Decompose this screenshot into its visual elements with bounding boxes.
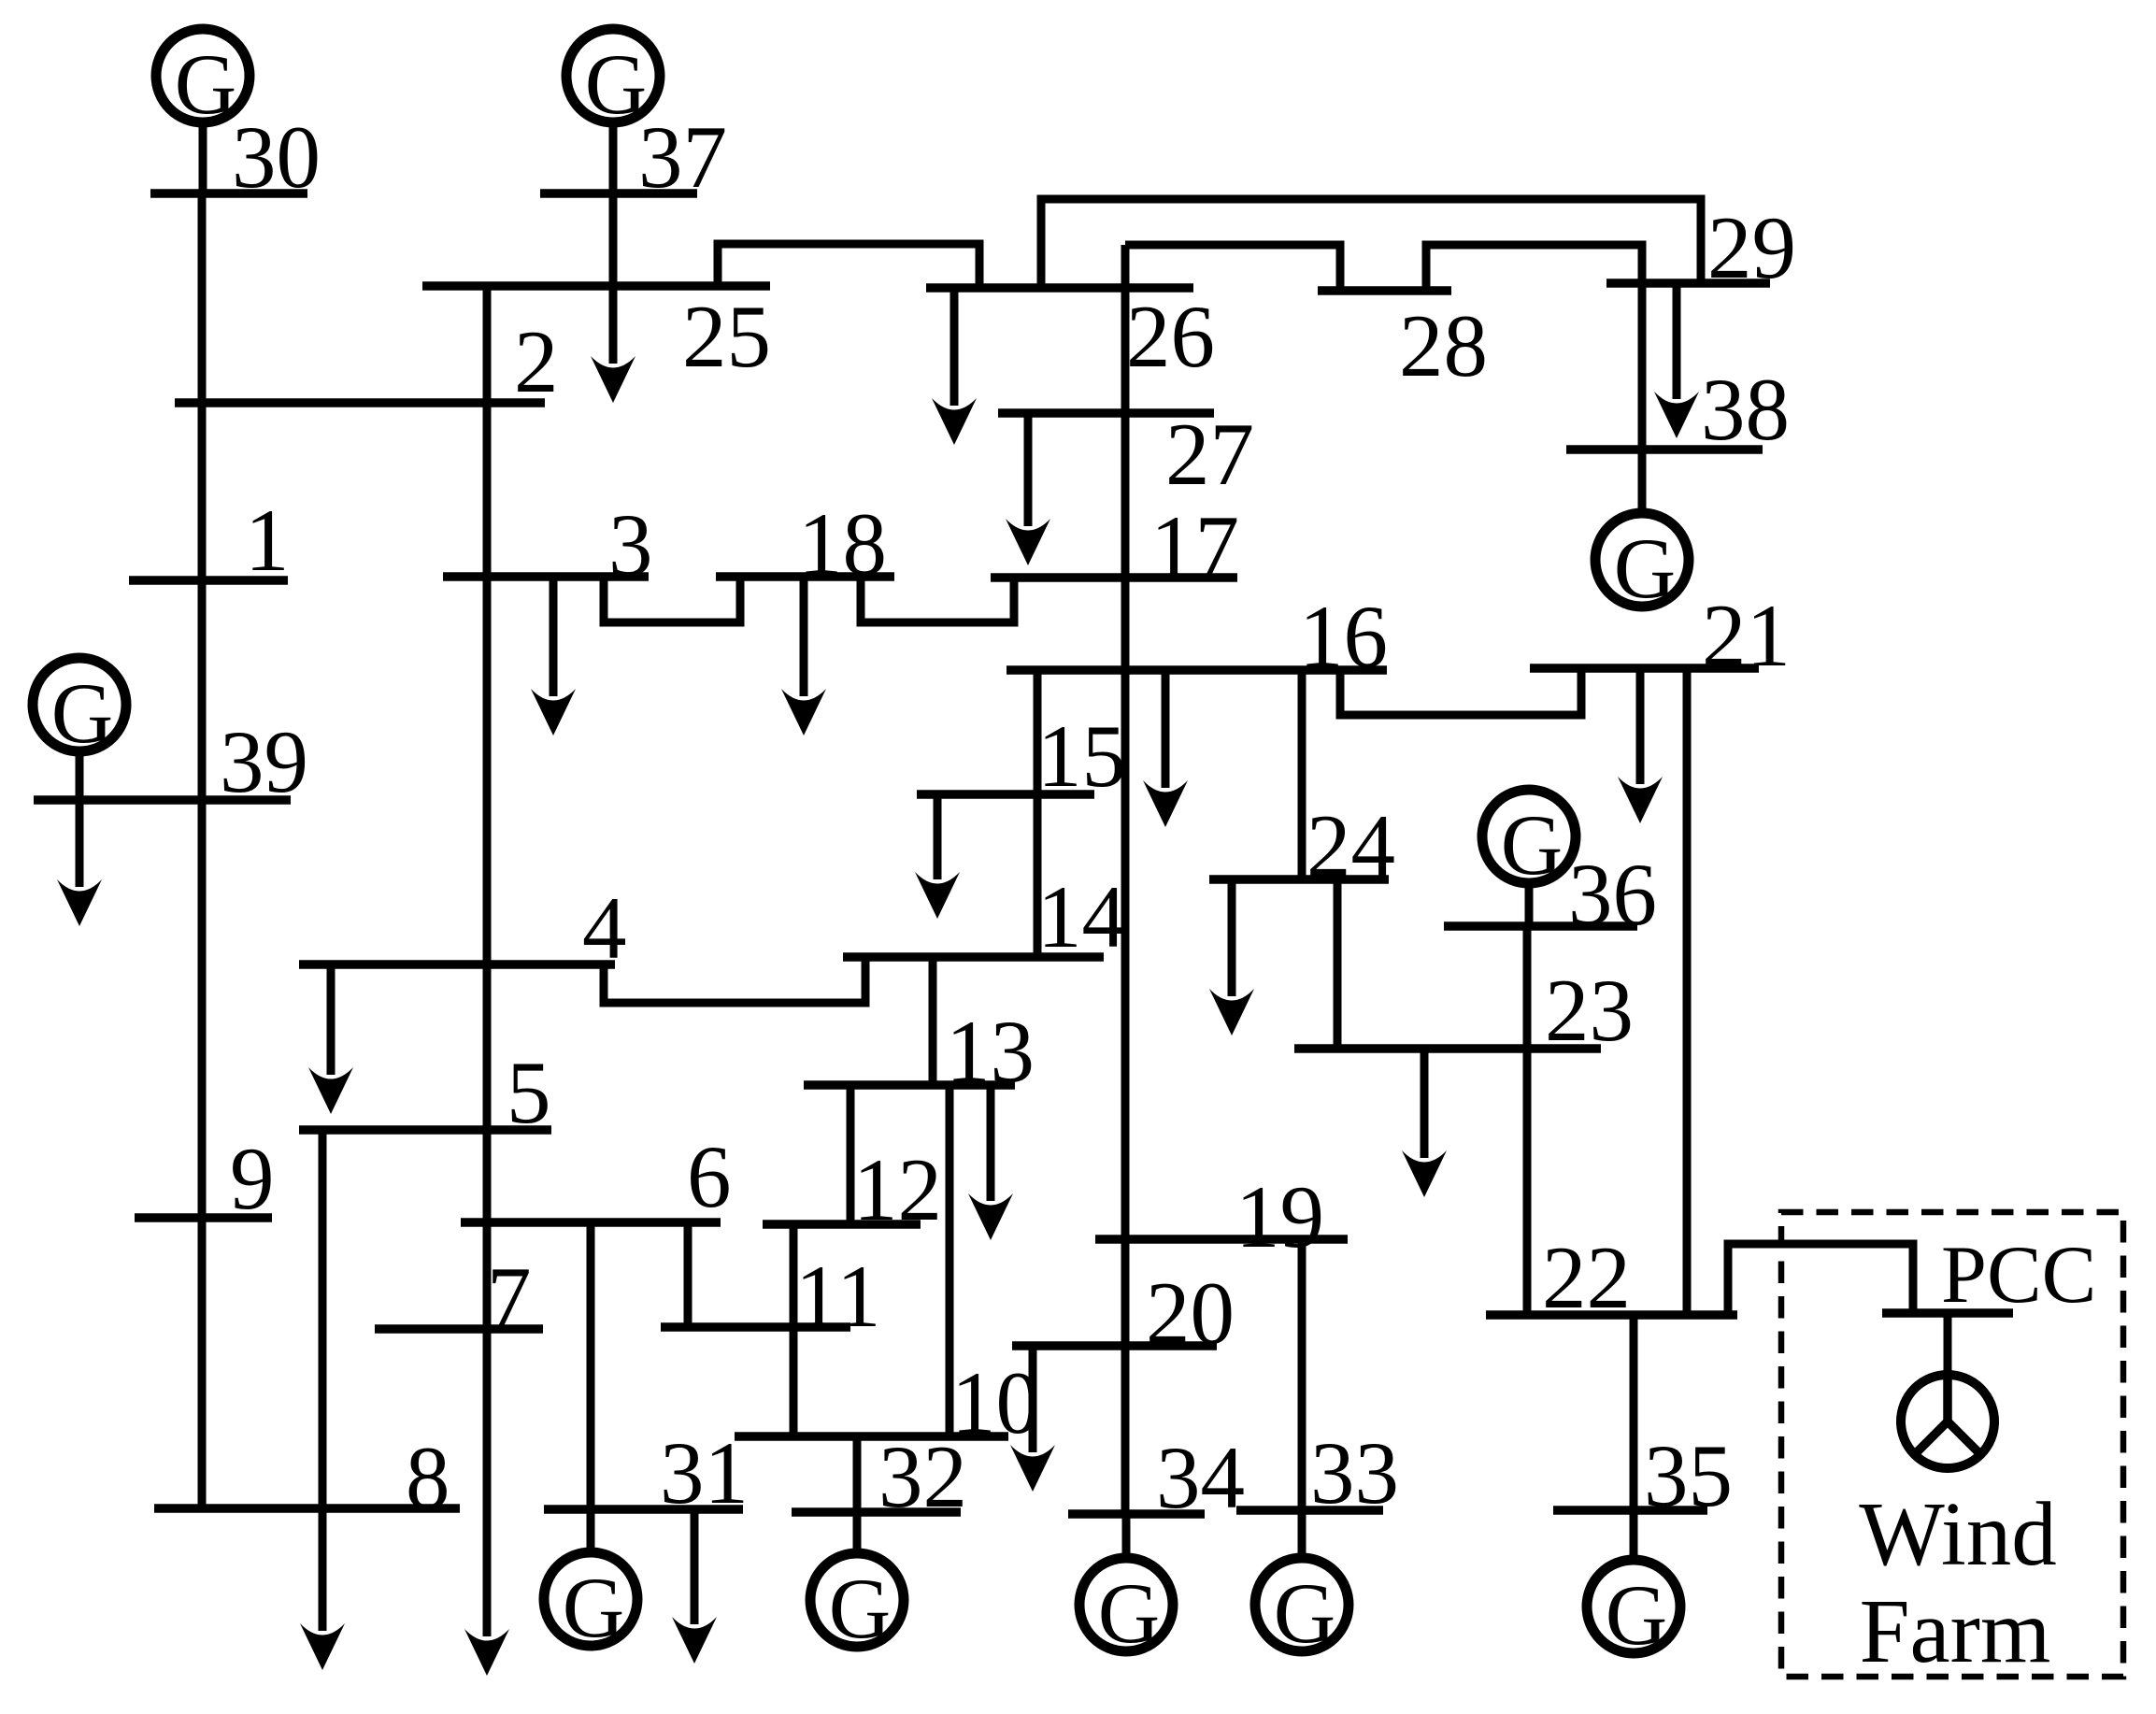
svg-text:11: 11 xyxy=(795,1247,880,1346)
bus 22 xyxy=(1486,1310,1737,1320)
svg-text:G: G xyxy=(829,1561,891,1656)
svg-text:32: 32 xyxy=(878,1427,967,1526)
bus 31 xyxy=(544,1505,743,1514)
load arrow bus 29 xyxy=(1654,283,1699,438)
svg-text:G: G xyxy=(1274,1565,1335,1661)
load arrow bus 15 xyxy=(915,794,960,919)
wire G37 to bus 37 through bus 25 xyxy=(609,193,618,286)
wire line 3-18 step connector xyxy=(604,577,740,622)
wire PCC bus to wind turbine xyxy=(1944,1313,1952,1372)
load arrow bus 18 xyxy=(781,577,826,736)
svg-text:16: 16 xyxy=(1299,587,1388,686)
wind turbine symbol (circle with 3 blades) xyxy=(1901,1375,1994,1468)
bus PCC xyxy=(1882,1308,2013,1318)
bus 10 xyxy=(735,1432,1008,1441)
svg-text:PCC: PCC xyxy=(1941,1230,2096,1321)
wire line 10-32 xyxy=(853,1436,862,1512)
load arrow bus 7 (below bus 7) xyxy=(464,1329,509,1676)
svg-text:37: 37 xyxy=(638,107,727,207)
wire line 16-15-14 vertical xyxy=(1034,670,1042,957)
generator G at bus 36 xyxy=(1482,790,1576,926)
wire line 16-21 step connector xyxy=(1340,668,1581,715)
load arrow bus 13 xyxy=(968,1085,1013,1240)
wire line 6-11 xyxy=(684,1222,692,1327)
load arrow bus 20 xyxy=(1010,1346,1055,1492)
load arrow bus 31 xyxy=(672,1509,717,1664)
svg-text:29: 29 xyxy=(1707,198,1796,297)
wire line 36-23-22 vertical xyxy=(1523,926,1532,1315)
wire line 22-35 xyxy=(1630,1315,1638,1510)
generator G at bus 35 xyxy=(1587,1510,1680,1663)
svg-text:2: 2 xyxy=(514,312,559,411)
generator G at bus 31 xyxy=(544,1509,637,1655)
load arrow bus 24 xyxy=(1209,879,1254,1036)
bus 21 xyxy=(1530,664,1759,673)
bus 38 xyxy=(1566,445,1763,454)
bus 30 xyxy=(150,189,307,198)
bus 26 xyxy=(926,283,1193,293)
svg-text:G: G xyxy=(1501,797,1563,893)
generator G at bus 38 xyxy=(1595,450,1689,616)
dashed box Wind Farm boundary xyxy=(1781,1212,2123,1677)
bus 12 xyxy=(763,1220,921,1229)
bus 16 xyxy=(1007,665,1387,675)
bus 33 xyxy=(1236,1506,1383,1515)
generator G at bus 39 xyxy=(33,658,126,800)
bus 9 xyxy=(135,1213,272,1222)
svg-text:20: 20 xyxy=(1146,1264,1235,1363)
svg-text:G: G xyxy=(1614,521,1676,616)
svg-text:G: G xyxy=(1606,1567,1667,1663)
svg-text:22: 22 xyxy=(1542,1228,1631,1327)
svg-text:38: 38 xyxy=(1701,360,1790,459)
svg-text:Farm: Farm xyxy=(1860,1581,2051,1681)
bus 6 xyxy=(461,1218,721,1227)
svg-text:9: 9 xyxy=(230,1129,275,1228)
svg-text:21: 21 xyxy=(1702,586,1791,685)
bus 8 xyxy=(154,1504,460,1513)
wire line 26-29 top tie xyxy=(1041,199,1701,288)
generator G at bus 37 xyxy=(566,29,660,193)
wire line 26-28 tie xyxy=(1125,245,1340,291)
load arrow bus 8 (below bus 8) xyxy=(300,1508,345,1670)
bus 3 xyxy=(443,572,649,581)
svg-text:G: G xyxy=(1098,1565,1160,1661)
svg-text:15: 15 xyxy=(1037,707,1126,806)
wire line 4-14 step connector xyxy=(604,957,865,1003)
svg-text:24: 24 xyxy=(1306,796,1395,895)
load arrow bus 39 xyxy=(57,800,102,926)
svg-text:Wind: Wind xyxy=(1859,1484,2057,1584)
bus 24 xyxy=(1209,875,1389,884)
load arrow bus 4 xyxy=(308,964,353,1114)
load arrow bus 3 xyxy=(531,577,576,736)
svg-text:35: 35 xyxy=(1644,1426,1733,1525)
load arrow bus 16 xyxy=(1143,670,1188,827)
generator G at bus 33 xyxy=(1255,1510,1349,1661)
svg-text:34: 34 xyxy=(1156,1428,1245,1527)
bus 28 xyxy=(1318,286,1451,295)
bus 37 xyxy=(540,189,697,198)
svg-text:31: 31 xyxy=(660,1423,749,1522)
wire line 18-17 step connector xyxy=(861,577,1014,622)
wire 25-2-3-4-5-6-7 vertical chain xyxy=(483,286,492,1329)
wire line 22-PCC tie xyxy=(1728,1244,1913,1315)
bus 19 xyxy=(1095,1235,1348,1244)
svg-text:5: 5 xyxy=(507,1043,551,1142)
svg-text:G: G xyxy=(563,1560,624,1655)
svg-text:14: 14 xyxy=(1037,867,1126,966)
bus 34 xyxy=(1068,1509,1205,1519)
wire line 16-24 xyxy=(1298,670,1306,879)
wire line 10-13 xyxy=(946,1085,954,1436)
svg-text:12: 12 xyxy=(853,1140,942,1239)
bus 7 xyxy=(375,1324,543,1334)
bus 4 xyxy=(299,960,615,969)
svg-text:30: 30 xyxy=(232,107,321,207)
bus 1 xyxy=(129,576,288,585)
bus 29 xyxy=(1606,279,1770,288)
generator G at bus 34 xyxy=(1079,1514,1173,1661)
bus 17 xyxy=(991,573,1237,582)
generator G at bus 30 xyxy=(156,29,250,193)
wire line 13-14 xyxy=(929,957,937,1085)
load arrow bus 23 xyxy=(1402,1049,1447,1197)
bus 14 xyxy=(843,952,1104,962)
wire 30-2-1-39-9-8 vertical chain xyxy=(198,193,207,1508)
svg-text:33: 33 xyxy=(1310,1423,1399,1522)
bus 23 xyxy=(1294,1044,1601,1053)
load arrow bus 21 xyxy=(1618,668,1663,823)
svg-text:G: G xyxy=(51,665,113,761)
svg-text:39: 39 xyxy=(220,712,308,811)
bus 25 xyxy=(422,281,770,291)
svg-text:13: 13 xyxy=(946,1002,1035,1101)
bus 15 xyxy=(917,790,1094,799)
bus 11 xyxy=(661,1322,850,1332)
load arrow bus 27 xyxy=(1006,413,1050,565)
bus 36 xyxy=(1444,921,1637,931)
svg-text:6: 6 xyxy=(687,1127,732,1226)
svg-text:27: 27 xyxy=(1165,405,1254,504)
svg-text:25: 25 xyxy=(682,287,771,386)
bus 5 xyxy=(299,1125,551,1135)
generator G at bus 32 xyxy=(810,1512,904,1656)
svg-text:1: 1 xyxy=(245,491,290,590)
svg-text:18: 18 xyxy=(798,494,887,593)
bus 39 xyxy=(34,795,291,805)
svg-text:19: 19 xyxy=(1235,1167,1324,1266)
load arrow bus 25 xyxy=(591,286,635,403)
svg-text:8: 8 xyxy=(406,1428,450,1527)
load arrow bus 26 xyxy=(932,288,977,445)
wire line 12-13 xyxy=(847,1085,855,1224)
bus 32 xyxy=(792,1507,961,1517)
svg-text:23: 23 xyxy=(1545,961,1634,1060)
bus 27 xyxy=(998,408,1214,418)
wire line 25-26 xyxy=(718,244,979,288)
bus 35 xyxy=(1553,1506,1707,1515)
wire line 24-23 xyxy=(1334,879,1342,1049)
bus 18 xyxy=(716,572,894,581)
wire line 5-8 xyxy=(319,1130,327,1508)
wire line 12-11-10 vertical xyxy=(790,1224,798,1436)
wire line 26-27-17-16-19-20-34 vertical chain xyxy=(1121,245,1130,1514)
wire line 28-29 tie down to bus 38 xyxy=(1426,245,1642,450)
svg-text:28: 28 xyxy=(1399,296,1488,395)
svg-text:26: 26 xyxy=(1126,287,1215,386)
bus 13 xyxy=(804,1080,1015,1090)
wire line 19-33 xyxy=(1298,1239,1306,1510)
svg-text:G: G xyxy=(175,36,236,132)
wire line 6-31 xyxy=(587,1222,595,1509)
svg-text:4: 4 xyxy=(582,878,627,978)
svg-text:7: 7 xyxy=(487,1249,532,1348)
svg-text:3: 3 xyxy=(608,495,653,594)
svg-text:36: 36 xyxy=(1568,845,1657,944)
wire line 21-22 xyxy=(1683,668,1692,1315)
svg-text:17: 17 xyxy=(1150,497,1239,596)
bus 2 xyxy=(175,398,545,407)
bus 20 xyxy=(1012,1341,1217,1350)
